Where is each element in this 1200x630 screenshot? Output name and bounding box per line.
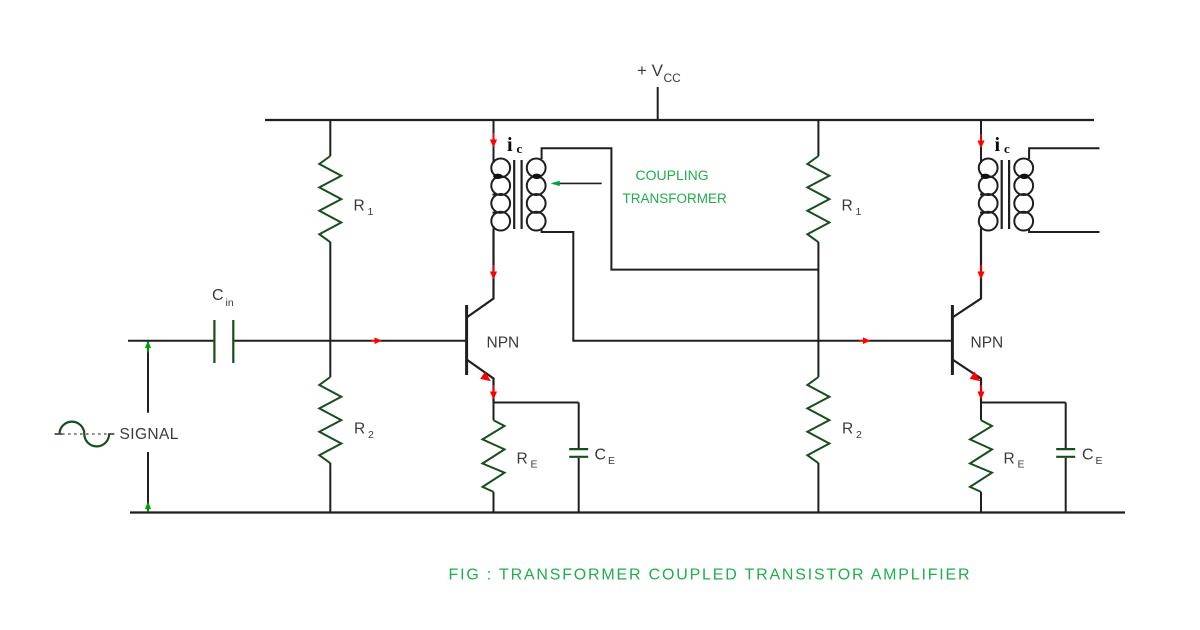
resistor R2 stage2 <box>807 377 829 463</box>
label R_1 stage2 <box>842 198 862 219</box>
svg-text:i: i <box>507 134 513 156</box>
arrow red down below emitter Q1 <box>490 385 497 400</box>
svg-text:SIGNAL: SIGNAL <box>120 426 179 443</box>
wire T2 primary top feed <box>980 120 982 163</box>
svg-text:NPN: NPN <box>487 335 520 352</box>
svg-text:COUPLING: COUPLING <box>636 167 709 183</box>
transistor Q2 collector lead <box>952 231 981 318</box>
resistor R1 stage2 <box>807 156 829 242</box>
svg-text:R: R <box>517 451 528 468</box>
svg-text:R: R <box>354 198 365 215</box>
svg-text:R: R <box>354 421 365 438</box>
wire T2 secondary bottom out <box>1029 229 1099 232</box>
wire RE2 stub top <box>980 403 982 421</box>
capacitor CE1 plates <box>569 449 588 457</box>
label COUPLING TRANSFORMER pointer line <box>553 182 602 184</box>
svg-text:1: 1 <box>856 206 862 218</box>
wire CE2 bottom stub <box>1065 458 1067 513</box>
arrow green up top of source line <box>145 341 151 353</box>
wire stage1 divider mid <box>329 242 331 377</box>
node +VCC stub <box>657 87 659 120</box>
source sine wave <box>60 422 110 447</box>
transformer T1 primary coil <box>491 159 510 231</box>
svg-text:c: c <box>517 141 523 156</box>
wire stage2 divider bottom <box>817 463 819 513</box>
transformer T2 secondary coil <box>1014 159 1033 231</box>
svg-text:c: c <box>1004 141 1010 156</box>
wire signal source vertical <box>147 341 149 513</box>
transistor Q2 emitter lead <box>952 360 981 403</box>
svg-text:E: E <box>531 459 538 471</box>
transformer T1 coil junction ticks <box>493 195 541 213</box>
wire RE1 CE1 top <box>494 402 579 404</box>
wire RE2 CE2 top <box>981 402 1066 404</box>
wire T2 primary bottom to collector <box>980 226 982 299</box>
svg-text:1: 1 <box>368 206 374 218</box>
label C_in <box>212 287 234 309</box>
transformer T1 core <box>514 160 521 229</box>
svg-text:TRANSFORMER: TRANSFORMER <box>623 191 728 206</box>
label C_E stage2 <box>1082 447 1103 468</box>
resistor R2 stage1 <box>319 377 341 463</box>
transistor Q1 emitter lead <box>467 360 494 403</box>
transformer T1 polarity dot primary <box>493 174 502 179</box>
wire RE1 stub bottom <box>493 492 495 513</box>
svg-text:i: i <box>995 134 1001 156</box>
arrow red emitter Q2 <box>970 372 981 382</box>
svg-text:+ V: + V <box>637 61 664 80</box>
wire CE1 top stub <box>578 403 580 449</box>
svg-text:E: E <box>1018 459 1025 471</box>
arrow red down below T1 <box>490 265 497 280</box>
svg-text:2: 2 <box>856 429 862 441</box>
wire RE2 stub bottom <box>980 492 982 513</box>
svg-text:FIG : TRANSFORMER COUPLED TRA: FIG : TRANSFORMER COUPLED TRANSISTOR AMP… <box>449 567 972 584</box>
transformer T2 primary coil <box>979 159 998 231</box>
label R_2 <box>354 421 374 442</box>
svg-text:E: E <box>1096 455 1103 467</box>
arrow green left pointer <box>551 181 560 186</box>
wire input <box>128 340 466 342</box>
wire stage1 divider bottom <box>329 463 331 513</box>
arrow red down below T2 <box>977 265 984 280</box>
arrow red emitter Q1 <box>480 372 491 382</box>
svg-text:NPN: NPN <box>971 335 1004 352</box>
arrow red down below emitter Q2 <box>977 385 984 400</box>
transformer T2 coil junction ticks <box>980 195 1028 213</box>
svg-text:R: R <box>842 198 853 215</box>
wire T1 secondary top out <box>542 148 819 269</box>
label R_E stage1 <box>517 451 538 471</box>
svg-text:in: in <box>226 297 234 309</box>
wire RE1 stub top <box>493 403 495 421</box>
capacitor C_in <box>214 320 233 363</box>
wire stage2 divider top <box>817 120 819 156</box>
transformer T2 polarity dot primary <box>981 174 990 179</box>
transformer T2 core <box>1002 160 1009 229</box>
label R_E stage2 <box>1004 451 1025 471</box>
transformer T1 polarity dot secondary <box>532 174 541 179</box>
source sine baseline <box>55 433 63 435</box>
svg-text:R: R <box>842 421 853 438</box>
svg-text:2: 2 <box>368 429 374 441</box>
transformer T1 secondary coil <box>527 159 546 231</box>
svg-text:C: C <box>595 447 607 464</box>
transistor Q2 base bar <box>951 305 954 375</box>
resistor RE1 <box>483 420 505 492</box>
wire T2 secondary top out <box>1029 148 1099 159</box>
transistor Q1 base bar <box>465 305 468 375</box>
label i_c T1 <box>507 134 523 156</box>
resistor R1 stage1 <box>319 156 341 242</box>
wire CE2 top stub <box>1065 403 1067 449</box>
wire top supply rail <box>265 119 1094 121</box>
label R_2 stage2 <box>842 421 862 442</box>
arrow green up bottom of source line <box>145 502 151 513</box>
arrow red right on base wire stage1 <box>371 337 382 344</box>
transformer T2 polarity dot secondary <box>1020 174 1029 179</box>
label i_c T2 <box>995 134 1011 156</box>
arrow red right on base wire stage2 <box>860 337 871 344</box>
capacitor CE2 plates <box>1056 449 1075 457</box>
label +VCC <box>637 61 681 85</box>
svg-text:E: E <box>608 455 615 467</box>
wire stage2 divider mid <box>817 242 819 377</box>
wire stage1 divider: rail to R1 <box>329 120 331 156</box>
wire CE1 bottom stub <box>578 458 580 513</box>
wire T1 primary bottom to collector <box>493 226 495 299</box>
svg-text:C: C <box>212 287 224 304</box>
svg-text:R: R <box>1004 451 1015 468</box>
resistor RE2 <box>970 420 992 492</box>
wire bottom ground rail <box>130 511 1125 513</box>
svg-text:C: C <box>1082 447 1094 464</box>
wire T1 secondary bottom out <box>542 229 952 341</box>
transistor Q1 collector lead <box>467 231 494 318</box>
arrow red down above T2 <box>977 134 984 149</box>
wire T1 primary top feed <box>493 120 495 163</box>
label C_E stage1 <box>595 447 616 468</box>
svg-text:CC: CC <box>664 71 682 85</box>
arrow red down above T1 <box>490 133 497 148</box>
label R_1 <box>354 198 374 219</box>
